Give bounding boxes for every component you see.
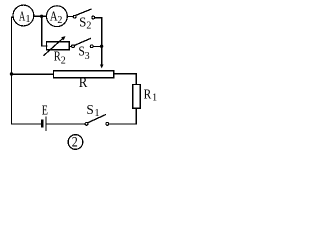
svg-text:E: E (42, 104, 48, 119)
svg-text:R: R (79, 75, 88, 91)
svg-text:2: 2 (72, 135, 78, 151)
ammeter A1 (13, 5, 34, 26)
svg-text:1: 1 (152, 92, 157, 103)
battery E (42, 117, 46, 130)
svg-text:2: 2 (57, 15, 62, 26)
wire R1 top to R right (114, 74, 137, 85)
wire junction down from A1-A2 node (42, 16, 47, 46)
node junction A1-A2 (40, 15, 43, 18)
svg-text:2: 2 (86, 21, 91, 32)
figure number circle (68, 135, 83, 150)
wire S1 to R1 bottom (109, 108, 136, 124)
wire battery to S1 (47, 123, 85, 125)
resistor R (slide) (54, 71, 114, 78)
slider arrow onto R (100, 65, 104, 69)
switch S2 (73, 9, 94, 19)
svg-text:2: 2 (61, 55, 66, 66)
wire A1 to A2 (34, 15, 47, 17)
svg-text:R: R (144, 88, 152, 103)
resistor R1 (133, 85, 141, 109)
wire S2 to right rail (95, 18, 102, 65)
svg-text:3: 3 (85, 51, 90, 62)
rheostat R2 (47, 42, 70, 50)
node junction S3-rail (100, 45, 103, 48)
wire A2 to S2 (67, 16, 73, 18)
svg-text:1: 1 (26, 14, 31, 25)
wire S3 to junction (93, 45, 101, 47)
switch S1 (85, 115, 109, 126)
svg-text:1: 1 (95, 108, 100, 119)
svg-text:S: S (86, 103, 93, 118)
ammeter A2 (47, 6, 68, 27)
arrow of R2 (44, 38, 64, 55)
wire R left to left rail (12, 73, 54, 75)
node on left rail (10, 72, 13, 75)
switch S3 (72, 39, 94, 48)
svg-text:S: S (79, 16, 86, 31)
wire left rail (12, 17, 42, 124)
wire R2 to S3 (69, 45, 71, 47)
